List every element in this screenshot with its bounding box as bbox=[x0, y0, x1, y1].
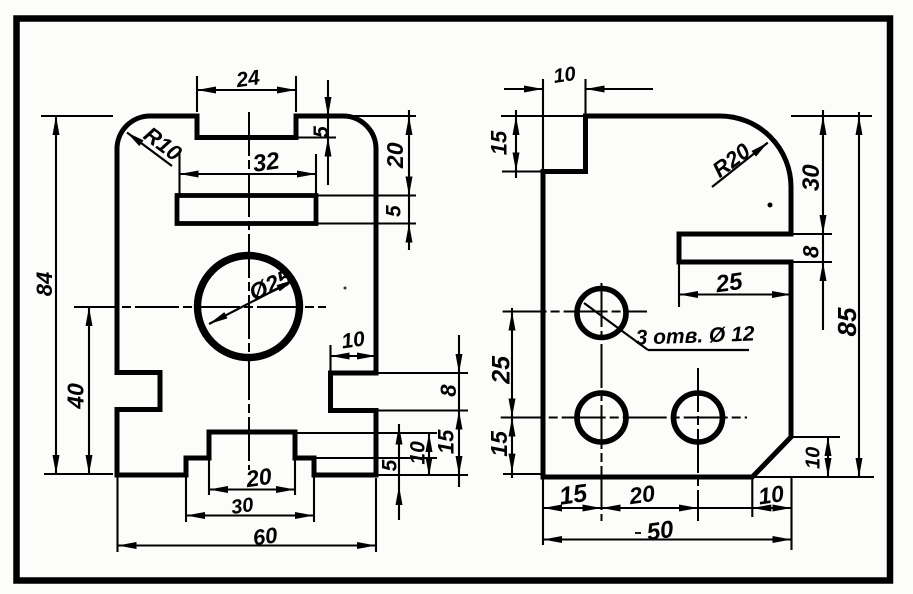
svg-text:25: 25 bbox=[713, 268, 745, 299]
svg-text:10: 10 bbox=[406, 441, 429, 465]
svg-text:32: 32 bbox=[251, 147, 282, 178]
svg-text:20: 20 bbox=[627, 480, 657, 509]
svg-text:60: 60 bbox=[251, 522, 279, 550]
svg-text:30: 30 bbox=[230, 494, 255, 519]
svg-text:24: 24 bbox=[234, 66, 262, 92]
svg-text:15: 15 bbox=[433, 429, 458, 454]
svg-text:25: 25 bbox=[488, 355, 516, 385]
svg-text:5: 5 bbox=[379, 459, 402, 471]
svg-text:50: 50 bbox=[645, 516, 676, 547]
svg-text:10: 10 bbox=[802, 447, 824, 469]
svg-text:20: 20 bbox=[243, 463, 273, 492]
svg-text:10: 10 bbox=[340, 327, 367, 353]
svg-text:8: 8 bbox=[798, 245, 823, 258]
svg-text:5: 5 bbox=[310, 126, 333, 138]
svg-text:15: 15 bbox=[486, 130, 511, 155]
svg-text:R20: R20 bbox=[708, 138, 756, 183]
svg-text:3 omв. Ø 12: 3 omв. Ø 12 bbox=[635, 323, 755, 350]
svg-text:84: 84 bbox=[32, 272, 57, 296]
svg-text:10: 10 bbox=[552, 63, 577, 88]
svg-text:15: 15 bbox=[486, 430, 512, 457]
svg-text:20: 20 bbox=[382, 142, 408, 169]
svg-text:10: 10 bbox=[757, 480, 786, 509]
svg-text:30: 30 bbox=[798, 164, 825, 191]
svg-text:85: 85 bbox=[832, 307, 862, 336]
svg-text:5: 5 bbox=[382, 205, 405, 217]
svg-text:40: 40 bbox=[62, 383, 88, 410]
svg-text:15: 15 bbox=[557, 479, 590, 511]
svg-text:8: 8 bbox=[436, 384, 461, 397]
